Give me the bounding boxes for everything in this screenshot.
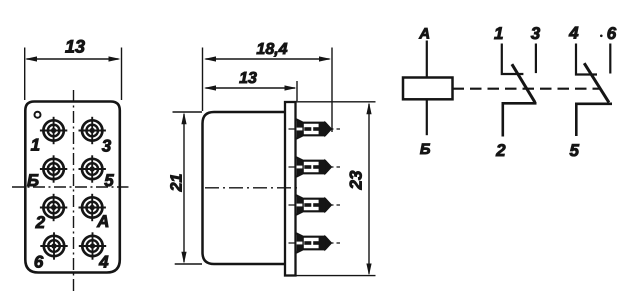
svg-text:4: 4 <box>568 24 579 43</box>
stray dot <box>600 35 603 38</box>
side pin 1 <box>289 119 341 138</box>
svg-text:1: 1 <box>494 24 503 43</box>
svg-text:Б: Б <box>420 141 431 158</box>
svg-text:21: 21 <box>169 174 186 193</box>
svg-text:5: 5 <box>104 171 114 190</box>
svg-text:23: 23 <box>347 170 366 190</box>
relay package outline (front view) <box>25 102 120 273</box>
armature link (dashed) <box>453 88 601 90</box>
svg-text:13: 13 <box>239 70 257 87</box>
wire contact 4 <box>576 44 597 75</box>
wire contact 2 <box>503 103 537 136</box>
side pin 4 <box>289 233 341 252</box>
dimension 23 (plate height) <box>347 102 372 275</box>
svg-text:3: 3 <box>102 137 112 156</box>
svg-text:18,4: 18,4 <box>256 41 287 58</box>
pin 3 (front view) <box>79 117 106 144</box>
svg-text:13: 13 <box>65 37 85 57</box>
svg-text:2: 2 <box>35 213 46 232</box>
pin 1 (front view) <box>40 117 67 144</box>
body centerline (side view) <box>205 187 300 189</box>
svg-text:А: А <box>96 212 109 231</box>
relay body (side view) <box>203 112 286 264</box>
pin 4 (front view) <box>79 232 106 259</box>
svg-text:6: 6 <box>607 24 617 43</box>
dimension 13 (side view body length) <box>204 70 297 91</box>
wire terminal A to coil <box>426 41 428 78</box>
wire contact 6 <box>609 44 611 74</box>
contact blade 1 <box>512 64 535 102</box>
mounting plate (side view) <box>285 102 296 276</box>
extension line right for 13 <box>296 81 298 101</box>
pin B (front view) <box>40 155 67 182</box>
extension line top for 21 <box>173 111 203 113</box>
extension line left (side view dims) <box>202 48 204 112</box>
wire contact 3 <box>535 44 537 74</box>
dimension 13 (front view width) <box>25 37 121 62</box>
pin A (front view) <box>79 194 106 221</box>
svg-text:А: А <box>418 26 430 43</box>
extension line bottom for 23 <box>297 275 376 277</box>
svg-text:Б: Б <box>27 171 39 190</box>
side pin 3 <box>289 195 341 214</box>
svg-text:2: 2 <box>495 141 506 160</box>
wire contact 5 <box>576 104 612 136</box>
svg-text:1: 1 <box>31 135 40 154</box>
dimension 18,4 (side view overall length) <box>204 41 331 62</box>
coil K1 <box>403 78 453 100</box>
extension line left of dimension 13 <box>24 48 26 101</box>
vertical centerline (front view) <box>73 90 75 291</box>
pin 2 (front view) <box>40 194 67 221</box>
extension line right of dimension 13 <box>121 48 123 101</box>
extension line right for 18,4 <box>331 48 333 133</box>
dimension 21 (body height) <box>169 112 187 263</box>
svg-text:6: 6 <box>34 252 44 271</box>
side pin 2 <box>289 157 341 176</box>
wire coil to terminal B <box>426 99 428 135</box>
contact blade 2 <box>584 63 609 102</box>
svg-text:3: 3 <box>531 24 541 43</box>
wire contact 1 <box>502 44 524 75</box>
svg-text:4: 4 <box>98 253 109 272</box>
svg-text:5: 5 <box>569 141 579 160</box>
pin 6 (front view) <box>40 232 67 259</box>
pin 5 (front view) <box>79 155 106 182</box>
extension line bottom for 21 <box>175 263 202 265</box>
horizontal centerline (front view) <box>12 186 129 188</box>
extension line top for 23 <box>297 101 376 103</box>
orientation mark hole <box>35 112 41 118</box>
